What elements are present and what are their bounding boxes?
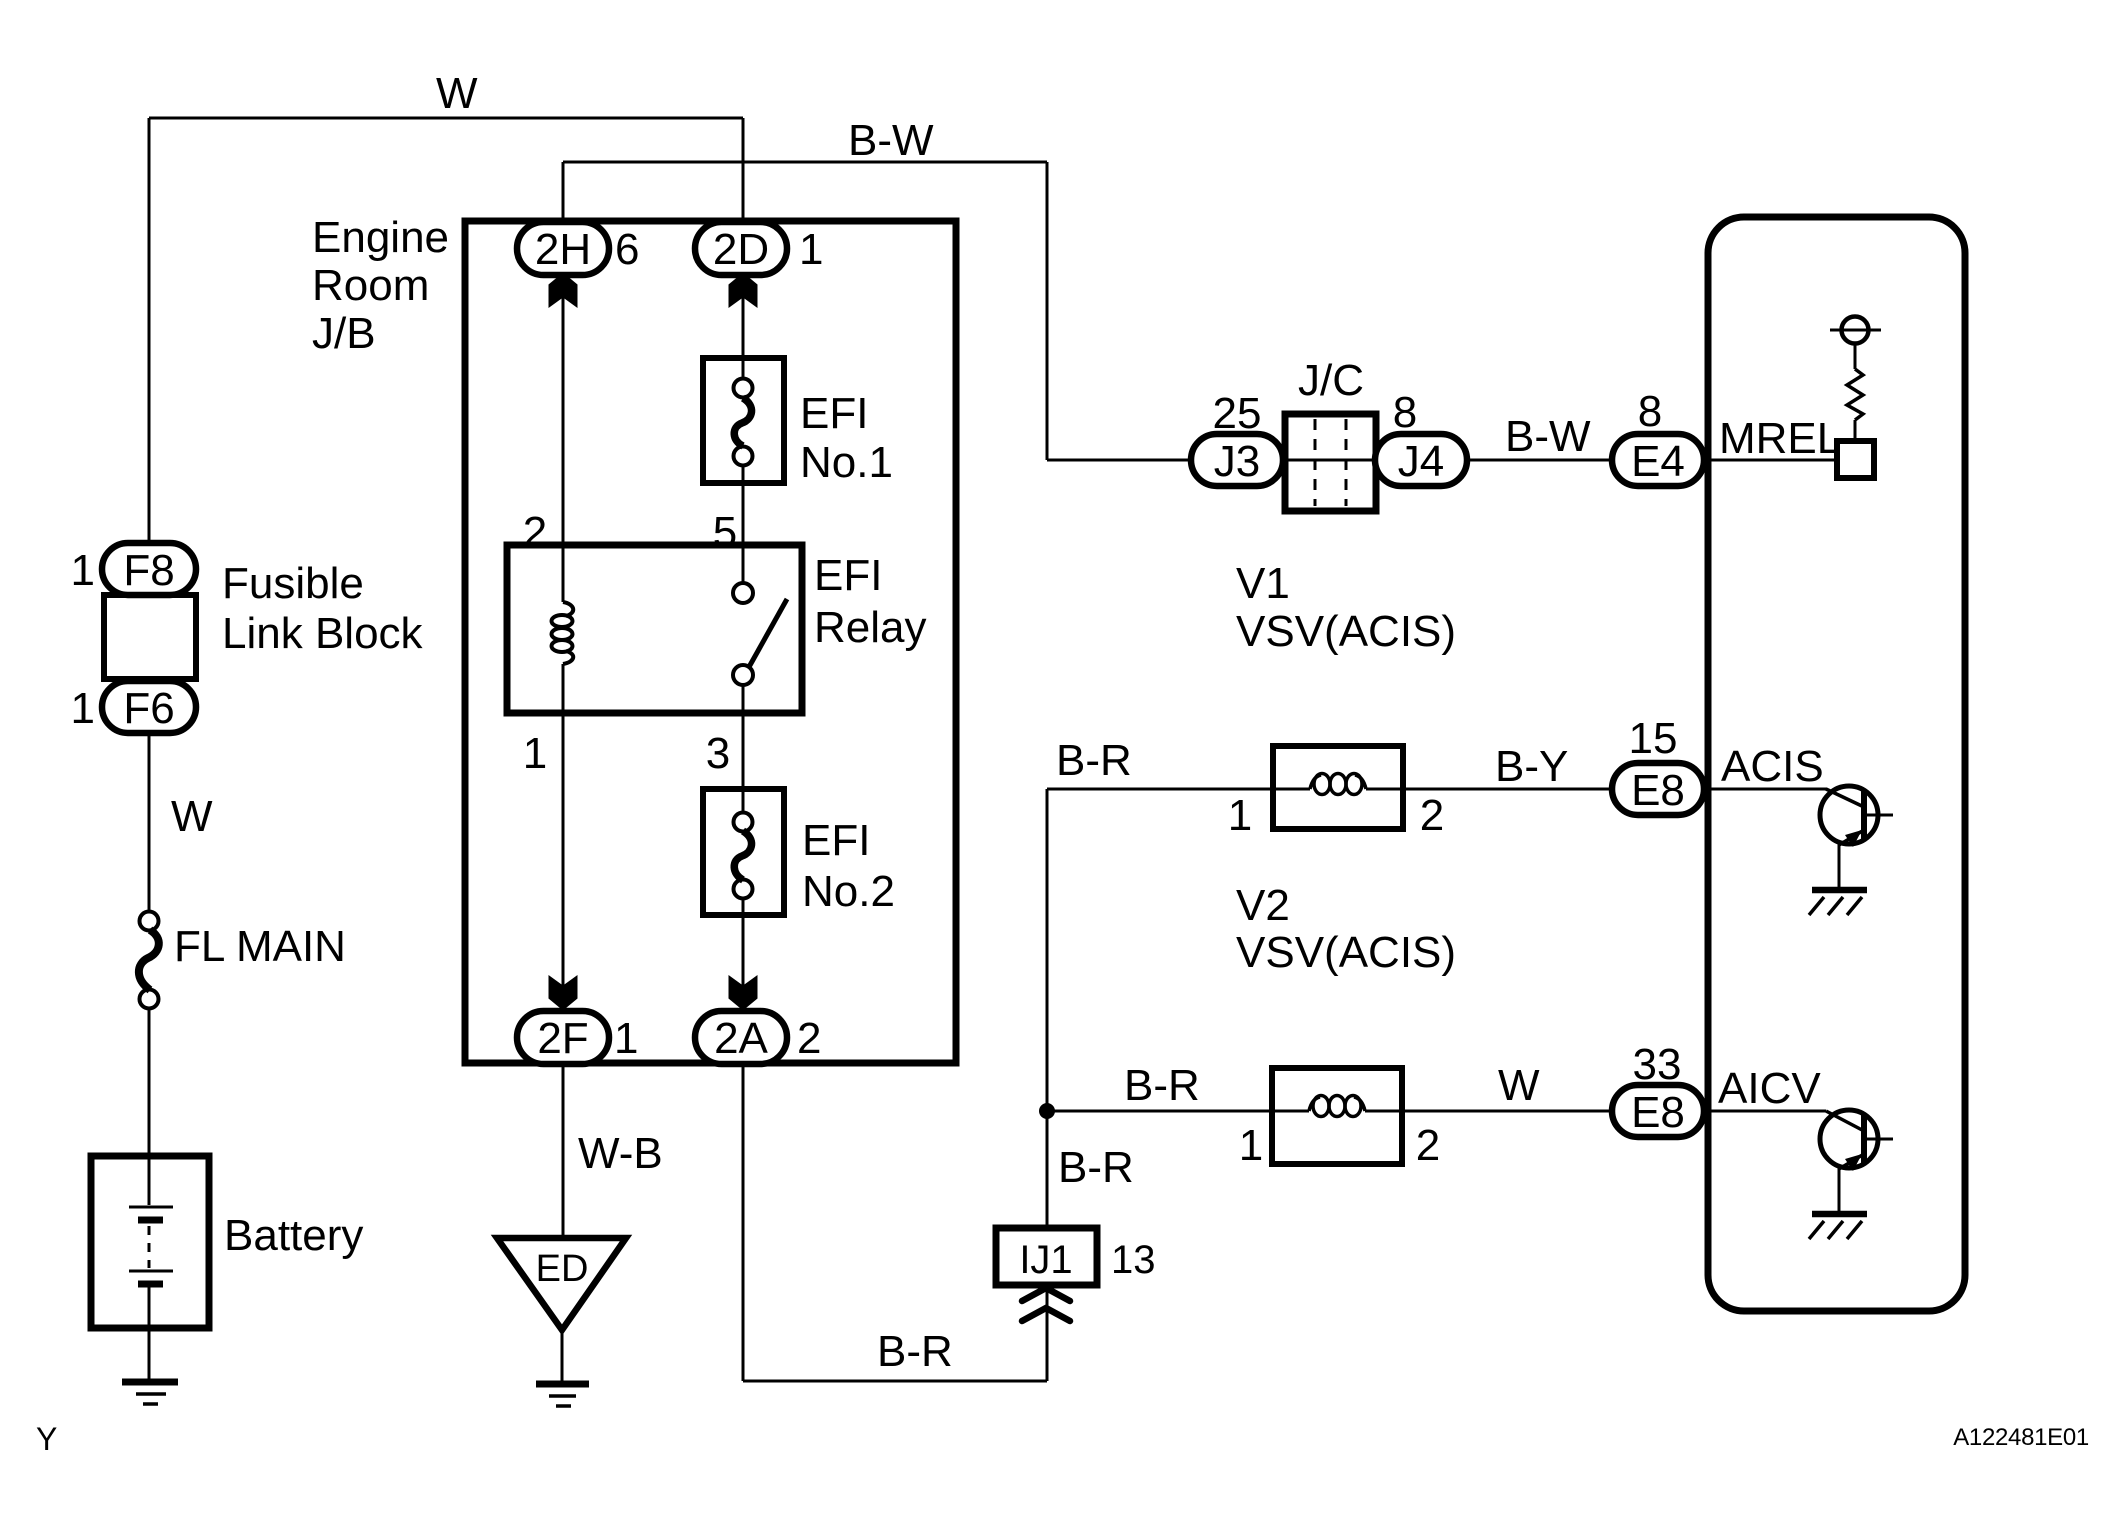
svg-text:AICV: AICV [1718,1064,1821,1113]
wire fuse2 to 2A [742,915,745,1011]
wire fuse1 to relay pin 5 [742,465,745,545]
arrow down (above 2A) [729,975,758,1011]
svg-text:E8: E8 [1631,766,1685,815]
solenoid V2 VSV(ACIS) [1273,746,1403,829]
wire bottom B-R horizontal [743,1380,1047,1383]
svg-text:W: W [171,792,213,841]
svg-text:2: 2 [797,1014,821,1063]
svg-text:Room: Room [312,261,429,310]
connector J4 [1375,434,1467,486]
wire F6 to FL MAIN [148,733,151,912]
ground symbol ED [497,1238,626,1330]
svg-text:J4: J4 [1398,437,1444,486]
wire E4 to MREL square [1704,459,1837,462]
transistor Q1 (ACIS driver) [1820,786,1878,844]
svg-text:V2: V2 [1236,881,1290,930]
svg-text:33: 33 [1633,1040,1682,1089]
svg-text:2A: 2A [714,1014,768,1063]
Engine Room J/B box [465,221,956,1063]
wire IJ1 riser [1046,1285,1049,1381]
svg-text:F8: F8 [123,546,174,595]
ground (Q2 chassis) [1812,1211,1867,1218]
connector E8 (ACIS) [1612,763,1704,815]
svg-text:Link Block: Link Block [222,609,424,658]
svg-text:2H: 2H [535,225,591,274]
wire B-R to VSV V2 [1047,788,1273,791]
arrow down (above 2F) [549,975,578,1011]
svg-text:8: 8 [1393,388,1417,437]
svg-text:25: 25 [1213,389,1262,438]
svg-text:1: 1 [1239,1121,1263,1170]
svg-text:IJ1: IJ1 [1019,1238,1072,1282]
svg-text:W-B: W-B [578,1129,663,1178]
svg-text:EFI: EFI [802,816,870,865]
svg-text:FL MAIN: FL MAIN [174,922,346,971]
svg-text:5: 5 [713,508,737,557]
wire riser from 2H [562,162,565,222]
svg-text:A122481E01: A122481E01 [1953,1424,2089,1451]
solenoid (AICV) [1272,1068,1402,1164]
connector E4 [1612,434,1704,486]
svg-text:6: 6 [615,225,639,274]
wire to J3 [1047,459,1192,462]
svg-text:2: 2 [523,508,547,557]
svg-text:15: 15 [1629,714,1678,763]
wire J4 to E4 [1467,459,1612,462]
svg-text:EFI: EFI [814,551,882,600]
wire 2H to relay pin 2 [562,274,565,545]
svg-text:Relay: Relay [814,603,927,652]
fuse EFI No.2 [703,789,784,915]
wire E8 to transistor Q2 [1704,1110,1826,1113]
svg-text:B-W: B-W [1505,412,1591,461]
svg-text:2: 2 [1420,791,1444,840]
svg-text:1: 1 [614,1014,638,1063]
wire FL MAIN to battery [148,1008,151,1156]
wire V2 to E8 [1403,788,1612,791]
svg-text:B-R: B-R [1124,1061,1200,1110]
svg-text:EFI: EFI [800,389,868,438]
wire circle to resistor [1854,344,1857,369]
svg-text:MREL: MREL [1719,414,1841,463]
wire B-W down to J/C level [1046,162,1049,460]
fusible link FL MAIN [140,912,159,931]
svg-text:E4: E4 [1631,437,1685,486]
svg-text:8: 8 [1638,387,1662,436]
Fusible Link Block box [104,595,196,679]
wire E8 to transistor Q1 [1704,788,1827,791]
MREL input square [1837,441,1874,478]
connector 2H [517,222,609,275]
svg-text:Engine: Engine [312,213,449,262]
wire W battery feed vertical (left) [148,118,151,543]
connector 2F [517,1011,609,1064]
svg-text:2F: 2F [537,1014,588,1063]
fuse EFI No.1 [703,358,784,483]
svg-text:Y: Y [36,1421,57,1457]
svg-text:2D: 2D [713,225,769,274]
wire AICV coil to E8 [1402,1110,1612,1113]
svg-text:B-Y: B-Y [1495,742,1568,791]
svg-text:1: 1 [71,684,95,733]
battery [91,1156,209,1328]
svg-text:1: 1 [71,546,95,595]
wire W top horizontal [149,117,743,120]
svg-text:B-R: B-R [1056,736,1132,785]
wire 2A down [742,1063,745,1381]
wire 2F to ED [562,1063,565,1238]
relay coil [562,545,565,602]
wire resistor to square [1854,420,1857,441]
ground (Q1 chassis) [1812,887,1867,894]
svg-text:VSV(ACIS): VSV(ACIS) [1236,607,1456,656]
wire ED to ground [561,1327,564,1382]
wire 2D to fuse EFI No.1 [742,274,745,379]
svg-text:W: W [1498,1061,1540,1110]
connector J3 [1191,434,1283,486]
ECM box [1708,217,1965,1311]
svg-text:1: 1 [799,225,823,274]
arrow up (under 2D) [729,273,758,309]
svg-text:Battery: Battery [224,1211,363,1260]
svg-text:W: W [436,69,478,118]
relay switch [742,545,745,583]
svg-text:13: 13 [1111,1238,1156,1282]
svg-text:1: 1 [1228,791,1252,840]
wire B-W top horizontal [563,161,1047,164]
connector F6 [102,681,196,733]
svg-text:B-R: B-R [1058,1143,1134,1192]
wire dot to AICV solenoid [1047,1110,1272,1113]
svg-text:ED: ED [536,1248,589,1290]
chevrons (IJ1 shield) [1022,1288,1070,1301]
connector 2A [695,1011,787,1064]
wire IJ1 up through junction to B-R corner [1046,789,1049,1228]
junction block J/C [1285,414,1376,511]
wire relay pin 3 to fuse EFI No.2 [742,713,745,789]
svg-text:Fusible: Fusible [222,559,364,608]
svg-text:J3: J3 [1214,437,1260,486]
svg-text:ACIS: ACIS [1721,742,1824,791]
svg-text:1: 1 [523,729,547,778]
svg-text:VSV(ACIS): VSV(ACIS) [1236,928,1456,977]
connector 2D [695,222,787,275]
connector E8 (AICV) [1612,1085,1704,1137]
svg-text:V1: V1 [1236,559,1290,608]
ground (ED) [536,1381,589,1388]
connector F8 [102,543,196,595]
wire drop to 2D [742,118,745,222]
arrow up (under 2H) [549,273,578,309]
svg-text:B-R: B-R [877,1327,953,1376]
svg-text:No.2: No.2 [802,867,895,916]
junction node dot [1039,1103,1055,1119]
svg-text:2: 2 [1416,1121,1440,1170]
EFI Relay box [507,545,802,713]
svg-text:F6: F6 [123,684,174,733]
junction connector IJ1 [996,1228,1097,1285]
resistor (MREL pullup) [1847,369,1863,420]
svg-text:No.1: No.1 [800,438,893,487]
svg-text:J/B: J/B [312,309,376,358]
transistor Q2 (AICV driver) [1820,1110,1878,1168]
power symbol (circle with bar) [1842,317,1869,344]
svg-text:3: 3 [706,729,730,778]
svg-text:B-W: B-W [848,116,934,165]
ground (battery) [122,1379,178,1386]
wire relay pin 1 to 2F [562,713,565,1011]
svg-text:J/C: J/C [1298,356,1364,405]
svg-text:E8: E8 [1631,1088,1685,1137]
